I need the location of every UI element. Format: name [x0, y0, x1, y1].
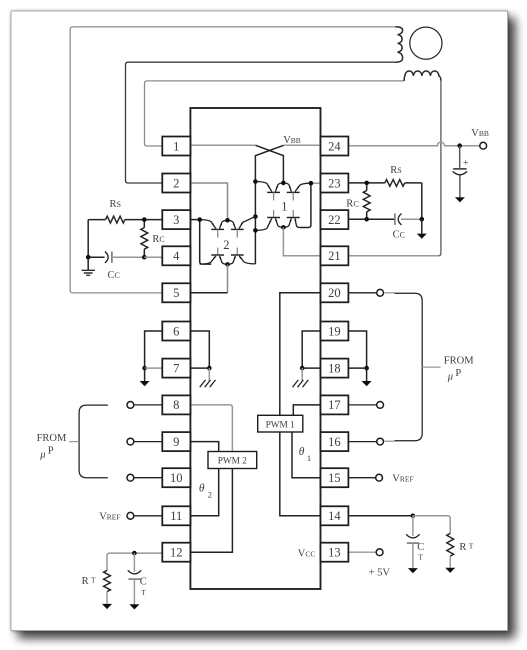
capacitor CC left	[88, 256, 104, 258]
capacitor CC right	[367, 218, 395, 220]
svg-text:RC: RC	[346, 198, 358, 209]
svg-text:+: +	[463, 158, 469, 169]
svg-text:+ 5V: + 5V	[369, 568, 391, 579]
pin box 6	[162, 322, 190, 341]
wire pin3 into bridge2	[190, 219, 199, 221]
svg-text:22: 22	[328, 213, 341, 227]
pin box 21	[321, 246, 349, 265]
node pin18 outside	[364, 366, 369, 371]
IC body U1	[190, 108, 320, 589]
wire pin10 input terminal	[134, 477, 163, 479]
earth ground left	[87, 257, 89, 270]
wire pin19 inside loop	[302, 331, 320, 368]
svg-text:P: P	[48, 446, 54, 457]
wire pin17 output terminal	[348, 404, 376, 406]
wire pin24 to VBB terminal with hop over crossing	[348, 142, 479, 146]
svg-text:T: T	[91, 576, 96, 585]
terminal pin13	[376, 549, 383, 556]
svg-text:2: 2	[208, 490, 212, 500]
wire pin14 to RT/CT	[348, 515, 413, 517]
svg-text:7: 7	[173, 361, 179, 375]
block PWM1	[258, 415, 303, 432]
svg-text:12: 12	[170, 546, 183, 560]
svg-text:17: 17	[328, 398, 341, 412]
bridge 1 rails and VBB cross	[284, 144, 321, 146]
transistor Q lower-left bridge1	[273, 210, 275, 218]
pin box 23	[321, 174, 349, 193]
node pin12/CT	[132, 551, 137, 556]
wire node to pin7 inside	[190, 367, 209, 369]
node pin23/RS/RC	[364, 181, 369, 186]
svg-text:19: 19	[328, 324, 341, 338]
wire pin3 to node	[144, 219, 162, 221]
wire pin22 to node	[348, 218, 366, 220]
svg-text:T: T	[469, 542, 474, 551]
wire pin6 inside loop	[190, 331, 209, 368]
svg-text:5: 5	[173, 286, 179, 300]
svg-text:1: 1	[173, 139, 179, 153]
node pin22/RC/CC	[364, 217, 369, 222]
pin box 19	[321, 322, 349, 341]
chassis ground pins6/7 inside	[208, 368, 210, 381]
svg-text:8: 8	[173, 398, 179, 412]
svg-text:1: 1	[307, 453, 311, 463]
pin box 16	[321, 432, 349, 451]
svg-text:μ: μ	[39, 449, 45, 460]
svg-text:T: T	[418, 552, 423, 561]
transistor Q lower-right bridge1	[292, 210, 294, 218]
wire pin11 VREF terminal	[134, 515, 163, 517]
wire PWM1 to pin14	[280, 432, 321, 516]
resistor RC left	[143, 220, 145, 258]
svg-text:CC: CC	[393, 229, 405, 240]
wire node to pin18 outside	[348, 367, 366, 369]
pin box 3	[162, 210, 190, 229]
svg-text:FROM: FROM	[444, 356, 474, 367]
node pin14/CT	[411, 514, 416, 519]
tick FROM uP right	[422, 366, 440, 368]
resistor RT left	[104, 570, 111, 591]
svg-text:11: 11	[170, 509, 182, 523]
pin box 20	[321, 283, 349, 302]
wire pin20 output terminal	[348, 292, 376, 294]
terminal pin8	[127, 402, 134, 409]
svg-text:21: 21	[328, 249, 341, 263]
svg-text:24: 24	[328, 139, 341, 153]
node RS/CC right corner	[420, 217, 425, 222]
svg-text:1: 1	[281, 199, 287, 213]
svg-text:θ: θ	[299, 446, 305, 458]
svg-text:20: 20	[328, 286, 341, 300]
stub pin16 to brace	[384, 440, 394, 442]
pin box 14	[321, 506, 349, 525]
wire PWM1 to pin15	[292, 432, 321, 478]
wire node to pin4	[144, 256, 162, 258]
pin box 1	[162, 137, 190, 156]
wire pin9 to PWM2	[190, 442, 218, 452]
bridge 2 nodes	[197, 217, 202, 222]
transistor Q lower-left bridge2	[217, 248, 219, 255]
pin box 7	[162, 359, 190, 378]
svg-text:2: 2	[173, 176, 179, 190]
svg-text:RC: RC	[152, 234, 164, 245]
tick FROM uP left	[69, 441, 79, 443]
wire RS right end down	[421, 183, 423, 219]
ground arrow RT left	[102, 604, 112, 609]
terminal pin16	[377, 438, 384, 445]
ground arrow below VBB cap	[455, 197, 465, 202]
resistor RS left	[125, 219, 144, 221]
wire pin12 to RT/CT	[107, 553, 162, 570]
node pin18 inside	[300, 366, 305, 371]
terminal VBB	[480, 142, 487, 149]
svg-text:RS: RS	[110, 199, 121, 210]
terminal pin15 VREF	[376, 474, 383, 481]
svg-text:μ: μ	[447, 372, 453, 383]
block PWM2	[208, 452, 257, 469]
svg-text:18: 18	[328, 361, 341, 375]
terminal pin17	[377, 402, 384, 409]
wire PWM2 to pin12	[190, 469, 232, 553]
ground arrow pins19/18 outside	[366, 368, 368, 381]
svg-text:4: 4	[173, 249, 180, 263]
svg-text:14: 14	[328, 509, 341, 523]
svg-text:VREF: VREF	[99, 512, 120, 523]
pin box 4	[162, 246, 190, 265]
capacitor CT left	[133, 553, 135, 572]
wire bridge1 to pin21 row	[283, 227, 320, 255]
brace FROM uP right	[394, 293, 422, 441]
wire pin2 to winding-A bottom	[126, 62, 397, 183]
svg-text:PWM 1: PWM 1	[266, 420, 296, 430]
pin box 9	[162, 432, 190, 451]
wire node to pin7	[145, 367, 163, 369]
svg-text:VCC: VCC	[298, 549, 316, 560]
svg-text:15: 15	[328, 471, 341, 485]
svg-text:3: 3	[173, 213, 179, 227]
svg-text:9: 9	[173, 435, 179, 449]
pin box 15	[321, 468, 349, 487]
svg-text:PWM 2: PWM 2	[218, 457, 248, 467]
svg-text:VREF: VREF	[392, 474, 413, 485]
wire pin1 to winding-B left	[145, 81, 405, 146]
terminal pin11 VREF	[127, 512, 134, 519]
resistor RC right	[366, 183, 368, 219]
pin box 10	[162, 468, 190, 487]
pin box 12	[162, 543, 190, 562]
svg-text:R: R	[82, 576, 89, 587]
wire PWM2 to pin11	[190, 469, 218, 516]
pin box 5	[162, 283, 190, 302]
svg-text:VBB: VBB	[283, 135, 301, 146]
svg-text:CC: CC	[108, 270, 120, 281]
junction node VBB cap	[457, 143, 462, 148]
wire pin8 input terminal	[134, 404, 163, 406]
svg-text:R: R	[459, 542, 466, 553]
svg-text:2: 2	[223, 238, 229, 252]
svg-text:FROM: FROM	[37, 433, 67, 444]
svg-text:RS: RS	[390, 165, 401, 176]
ground arrow RT right	[445, 568, 455, 573]
ground arrow CT left	[129, 604, 139, 609]
wire bridge2 to pin5 row	[227, 264, 229, 292]
brace FROM uP left	[79, 405, 108, 478]
wire node to pin18 inside	[302, 367, 320, 369]
node pin7 outside	[142, 366, 147, 371]
wire pin6 outside loop	[145, 331, 163, 368]
wire pin15 VREF terminal	[348, 477, 375, 479]
wire pin20 to PWM1	[280, 293, 321, 416]
svg-text:C: C	[140, 577, 147, 588]
wire pin8 to PWM2	[190, 405, 232, 452]
pin box 2	[162, 174, 190, 193]
transistor Q lower-right bridge2	[236, 248, 238, 255]
svg-text:VBB: VBB	[471, 128, 489, 139]
terminal pin20	[377, 289, 384, 296]
node pin7 inside	[207, 366, 212, 371]
transistor Q upper-left bridge1	[255, 182, 271, 192]
bridge 1 nodes	[253, 179, 258, 184]
pin box 24	[321, 137, 349, 156]
svg-text:θ: θ	[199, 482, 205, 494]
wire pin17 to PWM1	[293, 405, 320, 415]
transistor Q upper-right bridge2: right leg is diagonal to rail	[228, 220, 236, 228]
pin box 13	[321, 543, 349, 562]
ground arrow right network	[421, 219, 423, 233]
wire pin21 to winding-B vertical	[348, 255, 438, 257]
node pin3/RS/RC	[142, 217, 147, 222]
wire pin9 input terminal	[134, 441, 163, 443]
motor circle M	[410, 27, 442, 59]
winding A (motor phase A coil)	[396, 27, 403, 62]
svg-text:10: 10	[170, 471, 183, 485]
node CC/ground left	[86, 255, 91, 260]
wire RS left end down	[87, 220, 89, 258]
pin box 17	[321, 395, 349, 414]
pin box 8	[162, 395, 190, 414]
wire pin23 into bridge1	[311, 182, 321, 184]
wire pin16 output terminal	[348, 441, 376, 443]
capacitor C-bulk electrolytic at VBB	[459, 146, 461, 168]
svg-text:16: 16	[328, 435, 341, 449]
transistor Q upper-left bridge2	[200, 220, 216, 229]
pin box 11	[162, 506, 190, 525]
svg-text:6: 6	[173, 324, 179, 338]
svg-text:23: 23	[328, 176, 341, 190]
stub pin20 to brace	[384, 292, 394, 294]
wire pin13 to +5V terminal	[348, 551, 376, 553]
svg-text:T: T	[141, 588, 146, 597]
svg-text:13: 13	[328, 546, 341, 560]
wire pin23 to node	[348, 182, 366, 184]
transistor Q upper-right bridge1	[283, 183, 291, 192]
pin box 22	[321, 210, 349, 229]
terminal pin9	[127, 438, 134, 445]
wire pin2 into bridge2	[190, 183, 227, 220]
winding B (motor phase B coil)	[404, 71, 441, 81]
chassis ground pins19/18 inside	[301, 368, 303, 381]
ground arrow pins6/7 outside	[144, 368, 146, 381]
node pin4/RC/CC	[142, 255, 147, 260]
pin box 18	[321, 359, 349, 378]
wire pin5 to winding-A top (outer gray loop)	[70, 27, 396, 293]
resistor RS right	[367, 182, 385, 184]
ground arrow CT right	[408, 568, 418, 573]
capacitor CT right	[412, 516, 414, 536]
wire pin19 outside loop	[348, 331, 366, 368]
svg-text:P: P	[455, 368, 461, 379]
terminal pin10	[127, 474, 134, 481]
resistor RT right	[447, 533, 454, 556]
wire winding-B right down to pin21	[438, 81, 441, 256]
